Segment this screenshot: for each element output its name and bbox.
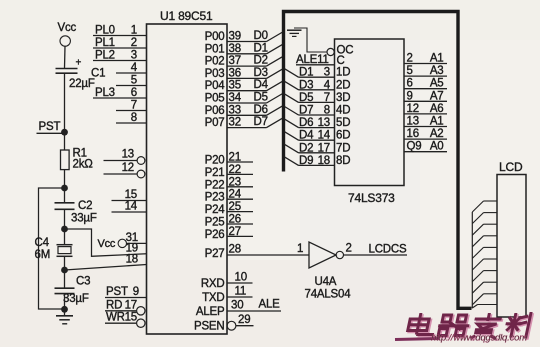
pin 38 P01 / D1 xyxy=(205,42,283,55)
svg-text:33: 33 xyxy=(229,104,241,116)
pin 2 PL1 (89C51) xyxy=(93,37,147,49)
pin 23 P22 xyxy=(205,176,253,191)
pin 7 P1.6 (89C51) xyxy=(116,100,147,112)
svg-text:1D: 1D xyxy=(336,67,350,79)
svg-text:D9: D9 xyxy=(299,155,313,167)
svg-text:D1: D1 xyxy=(254,42,268,54)
pin 31 EA / Vcc xyxy=(98,232,147,250)
svg-text:4: 4 xyxy=(131,62,138,74)
pin 37 P02 / D2 xyxy=(205,55,283,68)
svg-text:13: 13 xyxy=(122,149,134,161)
svg-text:5: 5 xyxy=(131,75,137,87)
capacitor C3 33µF xyxy=(55,270,91,309)
data bus (thick) D0-D7 to LCD xyxy=(284,12,472,309)
svg-text:D3: D3 xyxy=(299,79,313,91)
svg-text:10: 10 xyxy=(235,272,247,284)
svg-text:A3: A3 xyxy=(430,65,444,77)
svg-text:D3: D3 xyxy=(254,67,268,79)
svg-text:+: + xyxy=(76,58,82,69)
svg-text:D0: D0 xyxy=(254,30,268,42)
svg-text:4: 4 xyxy=(324,79,331,91)
pin 32 P07 / D7 xyxy=(205,116,283,129)
svg-text:25: 25 xyxy=(229,201,241,213)
pin 1 PL0 (89C51) xyxy=(93,25,147,37)
wire LCD pin 9 xyxy=(472,294,497,305)
svg-text:A5: A5 xyxy=(430,78,444,90)
pin 19 XTAL1 label xyxy=(126,243,138,255)
svg-text:A1: A1 xyxy=(430,116,444,128)
wire LCD pin 4 xyxy=(472,236,497,247)
wire LCD pin 7 xyxy=(472,271,497,282)
svg-text:D5: D5 xyxy=(299,92,313,104)
pin 34 P05 / D5 xyxy=(205,92,283,105)
svg-text:TXD: TXD xyxy=(202,292,224,304)
svg-text:17: 17 xyxy=(318,142,330,154)
svg-text:2kΩ: 2kΩ xyxy=(73,159,94,171)
svg-text:22: 22 xyxy=(229,164,241,176)
svg-text:P07: P07 xyxy=(205,117,225,129)
svg-text:15: 15 xyxy=(125,189,137,201)
svg-text:ALEP: ALEP xyxy=(196,306,225,318)
pin 29 PSEN xyxy=(194,314,254,333)
pin 21 P20 xyxy=(205,152,253,167)
svg-text:PST: PST xyxy=(39,121,61,133)
pin 4 P1.3 (89C51) xyxy=(116,62,147,74)
LCD connector xyxy=(497,160,526,317)
svg-text:36: 36 xyxy=(229,67,241,79)
pin 4 2D / D3 (U2) xyxy=(285,79,351,91)
pin Q9 output A0 (U2) xyxy=(404,141,447,153)
svg-text:U1 89C51: U1 89C51 xyxy=(160,9,213,23)
pin 5 output A3 (U2) xyxy=(404,65,447,77)
pin 13 output A1 (U2) xyxy=(404,116,447,128)
svg-text:4D: 4D xyxy=(336,105,350,117)
svg-text:22µF: 22µF xyxy=(69,78,95,90)
svg-text:A7: A7 xyxy=(430,90,444,102)
pin 12 (89C51 interrupt) xyxy=(104,162,145,178)
ground (left rail) xyxy=(56,309,73,324)
svg-text:28: 28 xyxy=(229,244,241,256)
resistor R1 2kΩ xyxy=(61,148,94,171)
pin 14 6D / D4 (U2) xyxy=(285,130,351,142)
svg-text:35: 35 xyxy=(229,80,241,92)
svg-text:30: 30 xyxy=(231,300,243,312)
pin 18 8D / D9 (U2) xyxy=(285,155,351,167)
svg-text:D6: D6 xyxy=(299,117,313,129)
wire node B to XTAL1 pin 19 xyxy=(65,229,147,256)
wire U4A output / LCDCS net xyxy=(344,243,408,256)
svg-text:6: 6 xyxy=(131,87,137,99)
svg-text:PST: PST xyxy=(106,286,128,298)
pin 7 3D / D5 (U2) xyxy=(285,92,351,104)
crystal C4 6M xyxy=(35,229,73,270)
wire LCD pin 3 xyxy=(472,224,497,235)
wire node C to XTAL2 pin 18 xyxy=(65,265,147,271)
svg-text:Q9: Q9 xyxy=(407,141,422,153)
pin 11 TXD xyxy=(202,286,252,305)
svg-text:http://www.dqgsdlq.com: http://www.dqgsdlq.com xyxy=(431,333,527,344)
pin 13 (89C51 interrupt) xyxy=(104,149,145,165)
svg-text:P27: P27 xyxy=(205,248,225,260)
svg-text:7: 7 xyxy=(324,92,330,104)
svg-text:12: 12 xyxy=(122,162,134,174)
LCD feeder bus (thin vertical) xyxy=(471,212,473,308)
svg-text:23: 23 xyxy=(229,176,241,188)
svg-text:PL1: PL1 xyxy=(95,37,115,49)
pin 33 P06 / D6 xyxy=(205,104,283,117)
svg-text:U4A: U4A xyxy=(315,276,337,288)
pin 17 7D / D2 (U2) xyxy=(285,142,351,154)
svg-text:15: 15 xyxy=(125,312,137,324)
pin 17 RD xyxy=(105,299,145,315)
pin 8 4D / D7 (U2) xyxy=(285,105,351,117)
svg-text:P06: P06 xyxy=(205,105,225,117)
svg-text:7: 7 xyxy=(131,100,137,112)
pin 26 P25 xyxy=(205,214,253,229)
pin 12 output A6 (U2) xyxy=(404,103,447,115)
svg-text:33µF: 33µF xyxy=(71,213,97,225)
svg-text:2: 2 xyxy=(346,243,352,255)
svg-text:Vcc: Vcc xyxy=(58,22,77,34)
ground (74LS373 OC) xyxy=(287,28,327,52)
svg-text:P02: P02 xyxy=(205,56,225,68)
svg-text:P01: P01 xyxy=(205,43,225,55)
pin 9 RST (PST) xyxy=(105,286,147,298)
pin 13 5D / D6 (U2) xyxy=(285,117,351,129)
pin 35 P04 / D4 xyxy=(205,79,283,92)
pin 15 (89C51 timer) xyxy=(112,189,147,201)
svg-text:D7: D7 xyxy=(299,105,313,117)
svg-text:13: 13 xyxy=(407,116,419,128)
pin 18 XTAL2 label xyxy=(126,254,138,266)
svg-text:3: 3 xyxy=(324,67,330,79)
wire Vcc to C1 xyxy=(64,46,67,68)
svg-text:29: 29 xyxy=(238,314,250,326)
svg-text:A0: A0 xyxy=(430,141,444,153)
pin 10 RXD xyxy=(201,272,253,291)
svg-text:8: 8 xyxy=(324,105,330,117)
svg-text:6M: 6M xyxy=(35,249,51,261)
pin 8 P1.7 (89C51) xyxy=(116,112,147,124)
svg-text:2D: 2D xyxy=(336,79,350,91)
svg-text:3D: 3D xyxy=(336,92,350,104)
svg-text:P20: P20 xyxy=(205,155,225,167)
svg-text:P24: P24 xyxy=(205,204,226,216)
svg-text:C: C xyxy=(337,55,345,67)
svg-text:D1: D1 xyxy=(299,67,313,79)
node A (R1/C2 junction) xyxy=(61,185,68,192)
svg-text:21: 21 xyxy=(229,152,241,164)
node D (ground junction) xyxy=(61,306,68,313)
svg-text:P23: P23 xyxy=(205,192,225,204)
svg-text:11: 11 xyxy=(235,286,247,298)
svg-text:A6: A6 xyxy=(430,103,444,115)
pin 36 P03 / D3 xyxy=(205,67,283,80)
node B (C2 / crystal junction) xyxy=(61,226,68,233)
svg-text:D4: D4 xyxy=(254,79,269,91)
svg-text:P03: P03 xyxy=(205,68,225,80)
svg-text:26: 26 xyxy=(229,214,241,226)
pin 30 ALEP / ALE net xyxy=(196,299,281,319)
svg-text:16: 16 xyxy=(407,128,419,140)
svg-text:33µF: 33µF xyxy=(63,293,89,305)
svg-text:PL2: PL2 xyxy=(95,50,115,62)
pin 16 WR (shown 15) xyxy=(105,312,145,328)
pin 1 OC (U2) xyxy=(327,45,353,57)
capacitor C1 22µF xyxy=(56,58,106,91)
svg-text:Vcc: Vcc xyxy=(98,238,116,250)
wire LCD pin 2 xyxy=(472,213,497,224)
svg-text:P04: P04 xyxy=(205,80,226,92)
wire LCD pin 8 xyxy=(472,282,497,293)
svg-text:RD: RD xyxy=(106,299,122,311)
wire left branch node A to ground node xyxy=(39,188,65,309)
pin 39 P00 / D0 xyxy=(205,30,283,43)
svg-text:27: 27 xyxy=(229,226,241,238)
svg-text:P26: P26 xyxy=(205,229,225,241)
svg-text:D6: D6 xyxy=(254,104,268,116)
watermark 电器资料 + url xyxy=(395,312,533,344)
svg-text:14: 14 xyxy=(318,130,331,142)
Vcc terminal (top left) xyxy=(58,22,77,46)
svg-text:5: 5 xyxy=(407,65,413,77)
svg-text:3: 3 xyxy=(131,50,137,62)
svg-text:D2: D2 xyxy=(299,142,313,154)
wire LCD pin 10 xyxy=(472,305,497,309)
pin 9 output A7 (U2) xyxy=(404,90,447,102)
svg-text:8: 8 xyxy=(131,112,137,124)
pin 27 P26 xyxy=(205,226,253,241)
latch U2 74LS373 xyxy=(335,39,405,205)
wire C1 to node PST xyxy=(64,73,66,131)
svg-text:D4: D4 xyxy=(299,130,314,142)
pin 11 C / ALE11 (U2 latch enable) xyxy=(296,54,345,67)
svg-text:RXD: RXD xyxy=(201,278,225,290)
pin 28 P27 (to U4A input) xyxy=(205,244,309,261)
svg-text:P22: P22 xyxy=(205,179,225,191)
svg-text:37: 37 xyxy=(229,55,241,67)
svg-text:D2: D2 xyxy=(254,55,268,67)
svg-text:C2: C2 xyxy=(78,200,92,212)
svg-text:A2: A2 xyxy=(430,128,444,140)
svg-text:D7: D7 xyxy=(254,116,268,128)
svg-text:P00: P00 xyxy=(205,31,225,43)
svg-text:1: 1 xyxy=(131,25,137,37)
node C (crystal / C3 junction) xyxy=(61,267,68,274)
svg-text:5D: 5D xyxy=(336,117,350,129)
svg-text:PL3: PL3 xyxy=(95,87,115,99)
svg-text:LCD: LCD xyxy=(499,160,523,174)
svg-text:9: 9 xyxy=(133,286,139,298)
svg-text:6: 6 xyxy=(407,78,413,90)
pin 25 P24 xyxy=(205,201,253,216)
svg-text:14: 14 xyxy=(125,201,138,213)
pin 22 P21 xyxy=(205,164,253,179)
pin 14 (89C51 timer) xyxy=(112,201,147,213)
svg-text:12: 12 xyxy=(407,103,419,115)
svg-text:PL0: PL0 xyxy=(95,25,115,37)
svg-text:PSEN: PSEN xyxy=(194,321,225,333)
svg-text:P21: P21 xyxy=(205,167,225,179)
svg-text:ALE: ALE xyxy=(259,299,281,311)
svg-text:D5: D5 xyxy=(254,92,268,104)
svg-text:ALE11: ALE11 xyxy=(296,54,329,66)
capacitor C2 33µF xyxy=(55,188,97,229)
svg-text:34: 34 xyxy=(229,92,242,104)
microcontroller U1 89C51 xyxy=(147,9,228,334)
svg-text:13: 13 xyxy=(318,117,330,129)
svg-text:LCDCS: LCDCS xyxy=(369,244,408,256)
svg-text:32: 32 xyxy=(229,117,241,129)
wire LCD pin 5 xyxy=(472,247,497,258)
svg-text:P25: P25 xyxy=(205,217,225,229)
inverter U4A 74ALS04 xyxy=(297,242,351,301)
pin 3 PL2 (89C51) xyxy=(93,50,147,62)
svg-text:2: 2 xyxy=(407,53,413,65)
wire node PST to R1 xyxy=(64,132,66,150)
wire LCD pin 1 xyxy=(472,201,497,212)
svg-text:74ALS04: 74ALS04 xyxy=(305,289,352,301)
svg-text:18: 18 xyxy=(318,155,330,167)
node PST (reset net) xyxy=(37,121,68,136)
svg-text:P05: P05 xyxy=(205,93,225,105)
pin 24 P23 xyxy=(205,189,253,204)
svg-text:A1: A1 xyxy=(430,53,444,65)
svg-text:74LS373: 74LS373 xyxy=(348,191,395,205)
svg-text:2: 2 xyxy=(131,37,137,49)
svg-text:39: 39 xyxy=(229,31,241,43)
wire LCD pin 6 xyxy=(472,259,497,270)
svg-text:7D: 7D xyxy=(336,142,350,154)
svg-text:C3: C3 xyxy=(76,276,90,288)
wire R1 to node A xyxy=(64,170,66,188)
svg-text:WR: WR xyxy=(106,312,125,324)
pin 5 P1.4 (89C51) xyxy=(116,75,147,87)
pin 6 PL3 (89C51) xyxy=(93,87,147,99)
svg-text:9: 9 xyxy=(407,90,413,102)
pin 6 output A5 (U2) xyxy=(404,78,447,90)
pin 16 output A2 (U2) xyxy=(404,128,447,140)
svg-text:1: 1 xyxy=(297,243,303,255)
pin 3 1D / D1 (U2) xyxy=(285,67,351,79)
svg-text:6D: 6D xyxy=(336,130,350,142)
svg-text:8D: 8D xyxy=(336,155,350,167)
svg-text:17: 17 xyxy=(125,299,137,311)
svg-text:24: 24 xyxy=(229,189,242,201)
pin 2 output A1 (U2) xyxy=(404,53,447,65)
svg-text:18: 18 xyxy=(126,254,138,266)
svg-text:38: 38 xyxy=(229,43,241,55)
svg-text:C4: C4 xyxy=(35,237,50,249)
